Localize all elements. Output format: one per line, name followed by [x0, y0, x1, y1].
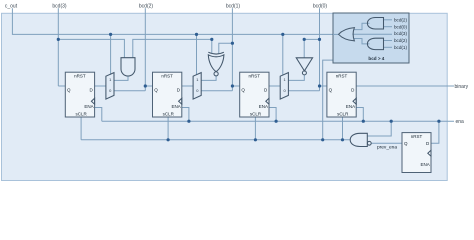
svg-text:bcd(0): bcd(0): [313, 3, 328, 9]
svg-text:nRST: nRST: [411, 134, 423, 139]
svg-text:Q: Q: [241, 87, 245, 92]
svg-text:nRST: nRST: [249, 74, 261, 79]
svg-text:sCLR: sCLR: [163, 111, 175, 116]
svg-text:sCLR: sCLR: [75, 111, 87, 116]
svg-text:ENA: ENA: [346, 104, 355, 109]
svg-text:ENA: ENA: [84, 104, 93, 109]
svg-text:nRST: nRST: [336, 74, 348, 79]
svg-text:bcd(1): bcd(1): [226, 3, 241, 9]
svg-text:ENA: ENA: [259, 104, 268, 109]
svg-text:ENA: ENA: [172, 104, 181, 109]
svg-text:nRST: nRST: [74, 74, 86, 79]
svg-text:sCLR: sCLR: [337, 111, 349, 116]
svg-text:nRST: nRST: [161, 74, 173, 79]
svg-text:bcd > 4: bcd > 4: [368, 56, 384, 61]
svg-text:Q: Q: [329, 87, 333, 92]
svg-text:bcd(2): bcd(2): [394, 17, 407, 22]
svg-text:ENA: ENA: [421, 162, 430, 167]
svg-text:ena: ena: [456, 119, 465, 125]
svg-text:prev_ena: prev_ena: [377, 144, 397, 150]
svg-text:binary: binary: [455, 84, 469, 90]
svg-text:bcd(1): bcd(1): [394, 45, 407, 50]
svg-text:Q: Q: [154, 87, 158, 92]
svg-text:bcd(2): bcd(2): [139, 3, 154, 9]
svg-text:bcd(3): bcd(3): [394, 31, 407, 36]
svg-text:bcd(3): bcd(3): [52, 3, 67, 9]
svg-text:bcd(2): bcd(2): [394, 38, 407, 43]
svg-text:Q: Q: [67, 87, 71, 92]
svg-text:bcd(0): bcd(0): [394, 24, 407, 29]
svg-text:sCLR: sCLR: [250, 111, 262, 116]
svg-text:c_out: c_out: [5, 3, 18, 9]
svg-text:Q: Q: [404, 141, 408, 146]
